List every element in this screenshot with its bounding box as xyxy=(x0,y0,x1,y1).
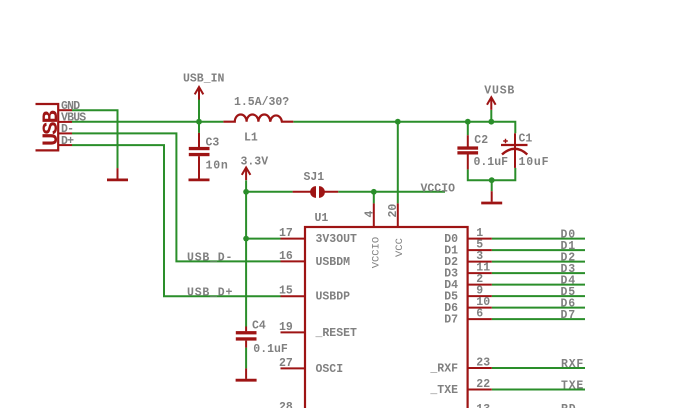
pin 20 VCC of U1 xyxy=(397,203,399,227)
ground below USB connector xyxy=(117,168,119,179)
svg-text:USBDP: USBDP xyxy=(316,291,351,304)
svg-text:C4: C4 xyxy=(252,320,266,333)
svg-text:1.5A/30?: 1.5A/30? xyxy=(234,96,289,109)
svg-text:15: 15 xyxy=(279,285,293,298)
wire D1 net xyxy=(492,249,585,251)
pin 9 D5 of U1 xyxy=(468,295,492,297)
svg-text:10uF: 10uF xyxy=(519,156,550,169)
svg-text:U1: U1 xyxy=(315,212,329,225)
solder jumper SJ1 xyxy=(293,186,339,198)
wire C2 top lead xyxy=(467,122,469,136)
wire D6 net xyxy=(492,307,585,309)
svg-text:17: 17 xyxy=(279,227,293,240)
wire D7 net xyxy=(492,318,585,320)
svg-text:VCC: VCC xyxy=(394,238,406,257)
node junction VUSB supply on rail xyxy=(488,119,494,125)
wire D2 net xyxy=(492,261,585,263)
wire ground stem below C1 C2 xyxy=(491,180,493,191)
node junction VCC drop on VUSB rail xyxy=(395,119,401,125)
svg-text:C1: C1 xyxy=(519,133,533,146)
pin 27 OSCI of U1 xyxy=(281,367,306,369)
pin 22 _TXE of U1 xyxy=(468,389,492,391)
svg-text:22: 22 xyxy=(476,378,490,391)
svg-text:USB_D-: USB_D- xyxy=(187,252,233,265)
svg-text:OSCI: OSCI xyxy=(316,363,344,376)
node junction U1 pin4 on VCCIO rail xyxy=(371,189,377,195)
inductor L1 xyxy=(223,114,293,121)
svg-text:6: 6 xyxy=(476,308,483,321)
pin 15 USBDP of U1 xyxy=(281,295,306,297)
svg-text:TXE: TXE xyxy=(561,379,584,392)
svg-text:27: 27 xyxy=(279,357,293,370)
pin GND of USB connector xyxy=(58,109,72,111)
ground below C4 xyxy=(245,368,247,379)
wire 3.3V vertical rail to C4 xyxy=(245,192,247,327)
wire TXE net xyxy=(492,389,585,391)
node junction C2 on VUSB rail xyxy=(465,119,471,125)
svg-text:3V3OUT: 3V3OUT xyxy=(316,233,358,246)
pin 17 3V3OUT of U1 xyxy=(281,238,306,240)
pin 5 D1 of U1 xyxy=(468,249,492,251)
svg-text:USB_D+: USB_D+ xyxy=(187,286,233,299)
pin D- of USB connector xyxy=(58,132,72,134)
svg-text:USBDM: USBDM xyxy=(316,256,351,269)
ground below C1 C2 xyxy=(491,191,493,202)
wire VBUS from USB pin to inductor L1 xyxy=(72,121,223,123)
pin 2 D4 of U1 xyxy=(468,284,492,286)
svg-text:C2: C2 xyxy=(474,134,488,147)
node junction 3V3OUT rail at pin 17 xyxy=(243,236,249,242)
pin 16 USBDM of U1 xyxy=(281,260,306,262)
wire RXF net xyxy=(492,367,585,369)
capacitor C4 xyxy=(236,327,257,348)
svg-text:_RXF: _RXF xyxy=(429,363,458,376)
svg-text:_RESET: _RESET xyxy=(315,327,358,340)
svg-text:SJ1: SJ1 xyxy=(304,171,325,184)
svg-text:D7: D7 xyxy=(561,309,576,322)
supply arrow 3.3V xyxy=(242,168,251,181)
supply arrow USB_IN xyxy=(195,87,204,100)
svg-text:23: 23 xyxy=(476,357,490,370)
pin 19 _RESET of U1 xyxy=(281,331,306,333)
wire VUSB net from L1 to C1 xyxy=(293,122,515,134)
pin 1 D0 of U1 xyxy=(468,238,492,240)
svg-text:16: 16 xyxy=(279,250,293,263)
node junction USB_IN / C3 on VBUS xyxy=(196,119,202,125)
wire C4 bottom lead to ground xyxy=(245,348,247,369)
wire VUSB supply stem xyxy=(490,110,492,122)
svg-text:20: 20 xyxy=(387,204,400,218)
wire D3 net xyxy=(492,272,585,274)
wire USB D- from USB pin to U1 pin 16 xyxy=(72,133,281,261)
wire GND net from USB pin to ground xyxy=(72,110,118,168)
connector USB symbol body xyxy=(36,104,59,150)
svg-text:28: 28 xyxy=(279,401,293,408)
capacitor C3 xyxy=(189,133,210,179)
pin 6 D7 of U1 xyxy=(468,318,492,320)
svg-text:D7: D7 xyxy=(444,314,458,327)
pin 11 D3 of U1 xyxy=(468,272,492,274)
svg-text:USB_IN: USB_IN xyxy=(183,72,225,85)
pin 23 _RXF of U1 xyxy=(468,367,492,369)
svg-text:RXF: RXF xyxy=(561,358,584,371)
svg-text:10n: 10n xyxy=(206,159,229,172)
ground below C3 xyxy=(198,168,200,179)
pin D+ of USB connector xyxy=(58,144,72,146)
capacitor C2 xyxy=(457,135,478,169)
svg-text:4: 4 xyxy=(363,211,376,218)
svg-text:L1: L1 xyxy=(244,131,258,144)
wire D0 net xyxy=(492,238,585,240)
pin VBUS of USB connector xyxy=(58,121,72,123)
wire D5 net xyxy=(492,295,585,297)
svg-text:VCCIO: VCCIO xyxy=(421,182,456,195)
pin 4 VCCIO of U1 xyxy=(373,203,375,227)
svg-text:13: 13 xyxy=(476,403,490,408)
svg-text:VCCIO: VCCIO xyxy=(370,237,382,269)
wire USB D+ from USB pin to U1 pin 15 xyxy=(72,145,281,296)
wire U1 pin 4 stem xyxy=(373,192,375,204)
svg-text:D+: D+ xyxy=(61,135,74,148)
wire VCC drop to U1 pin 20 xyxy=(397,122,399,204)
svg-text:C3: C3 xyxy=(206,137,220,150)
wire 3.3V supply stem xyxy=(245,180,247,192)
wire C2 bottom to ground rail xyxy=(468,168,516,180)
wire 3V3OUT to U1 pin 17 xyxy=(246,238,280,240)
svg-text:RD: RD xyxy=(561,403,576,408)
svg-text:0.1uF: 0.1uF xyxy=(474,156,509,169)
svg-text:_TXE: _TXE xyxy=(429,384,458,397)
supply arrow VUSB xyxy=(487,97,496,110)
svg-text:3.3V: 3.3V xyxy=(241,155,269,168)
wire D4 net xyxy=(492,284,585,286)
wire USB_IN supply stem xyxy=(198,99,200,121)
svg-text:VUSB: VUSB xyxy=(484,85,515,98)
pin 10 D6 of U1 xyxy=(468,307,492,309)
svg-text:19: 19 xyxy=(279,321,293,334)
wire VCCIO net from SJ1 to label xyxy=(338,191,445,193)
svg-text:0.1uF: 0.1uF xyxy=(253,343,288,356)
pin 3 D2 of U1 xyxy=(468,261,492,263)
node junction ground stem under C1 C2 xyxy=(489,177,495,183)
IC U1 box xyxy=(305,227,468,408)
node junction 3.3V supply on VCCIO rail xyxy=(243,189,249,195)
wire 3.3V rail to SJ1 xyxy=(246,191,293,193)
capacitor C1 polarized xyxy=(501,133,528,168)
wire C3 top lead xyxy=(198,122,200,133)
